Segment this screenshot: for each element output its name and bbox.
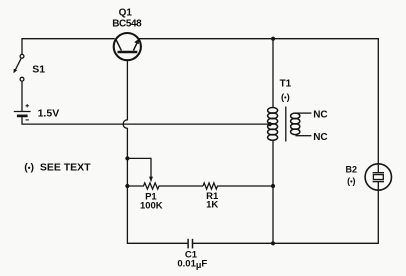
wire bottom left (base node to C1) xyxy=(127,242,187,244)
node bottom wire T1 junction xyxy=(271,241,275,245)
wire top right (Q1 emitter to T1 and B2) xyxy=(140,38,379,40)
svg-text:1.5V: 1.5V xyxy=(38,107,60,119)
wire left vertical (top wire down to S1) xyxy=(21,39,23,55)
node base-pot junction xyxy=(125,184,129,188)
wire B2 bottom lead xyxy=(377,190,379,243)
wire Q1 base lead with hop over battery wire xyxy=(123,61,127,244)
wire top left (S1 to Q1 collector) xyxy=(22,38,114,40)
battery B1 1.5V xyxy=(14,104,31,120)
svg-text:NC: NC xyxy=(313,132,327,143)
svg-text:BC548: BC548 xyxy=(112,19,142,30)
capacitor C1 xyxy=(188,239,192,249)
svg-text:S1: S1 xyxy=(32,63,45,75)
svg-text:1K: 1K xyxy=(206,200,218,211)
wire S1 to battery xyxy=(21,81,23,111)
svg-text:100K: 100K xyxy=(140,201,163,212)
wire right vertical above T1 xyxy=(272,39,274,108)
buzzer B2 xyxy=(365,164,391,190)
transformer T1 secondary winding xyxy=(291,113,300,135)
transistor Q1 xyxy=(114,33,141,60)
resistor R1 xyxy=(203,183,273,189)
wire bottom right (C1 to B2) xyxy=(193,242,378,244)
transformer T1 core xyxy=(285,107,287,142)
wire right vertical below T1 to bottom xyxy=(272,140,274,243)
svg-text:0.01μF: 0.01μF xyxy=(177,258,207,270)
potentiometer P1 body xyxy=(127,183,203,189)
node top wire T1 junction xyxy=(271,37,275,41)
wire battery minus to T1 center tap xyxy=(22,116,269,124)
switch S1 xyxy=(13,54,24,81)
svg-text:Q1: Q1 xyxy=(119,8,133,19)
wire secondary top lead NC xyxy=(296,112,312,114)
svg-text:T1: T1 xyxy=(280,79,292,90)
svg-text:B2: B2 xyxy=(346,164,358,174)
node base-wiper junction xyxy=(125,156,129,160)
wire secondary bottom lead NC xyxy=(296,135,312,137)
wire far right vertical (top wire to B2) xyxy=(377,39,379,164)
svg-text:NC: NC xyxy=(313,109,327,120)
svg-text:(•) SEE TEXT: (•) SEE TEXT xyxy=(24,161,91,173)
transformer T1 primary winding xyxy=(268,108,278,141)
wire wiper branch to P1 arrow xyxy=(127,158,151,176)
node pot-line right junction xyxy=(271,184,275,188)
node T1 center tap xyxy=(268,122,272,126)
potentiometer P1 wiper arrow xyxy=(149,177,153,183)
